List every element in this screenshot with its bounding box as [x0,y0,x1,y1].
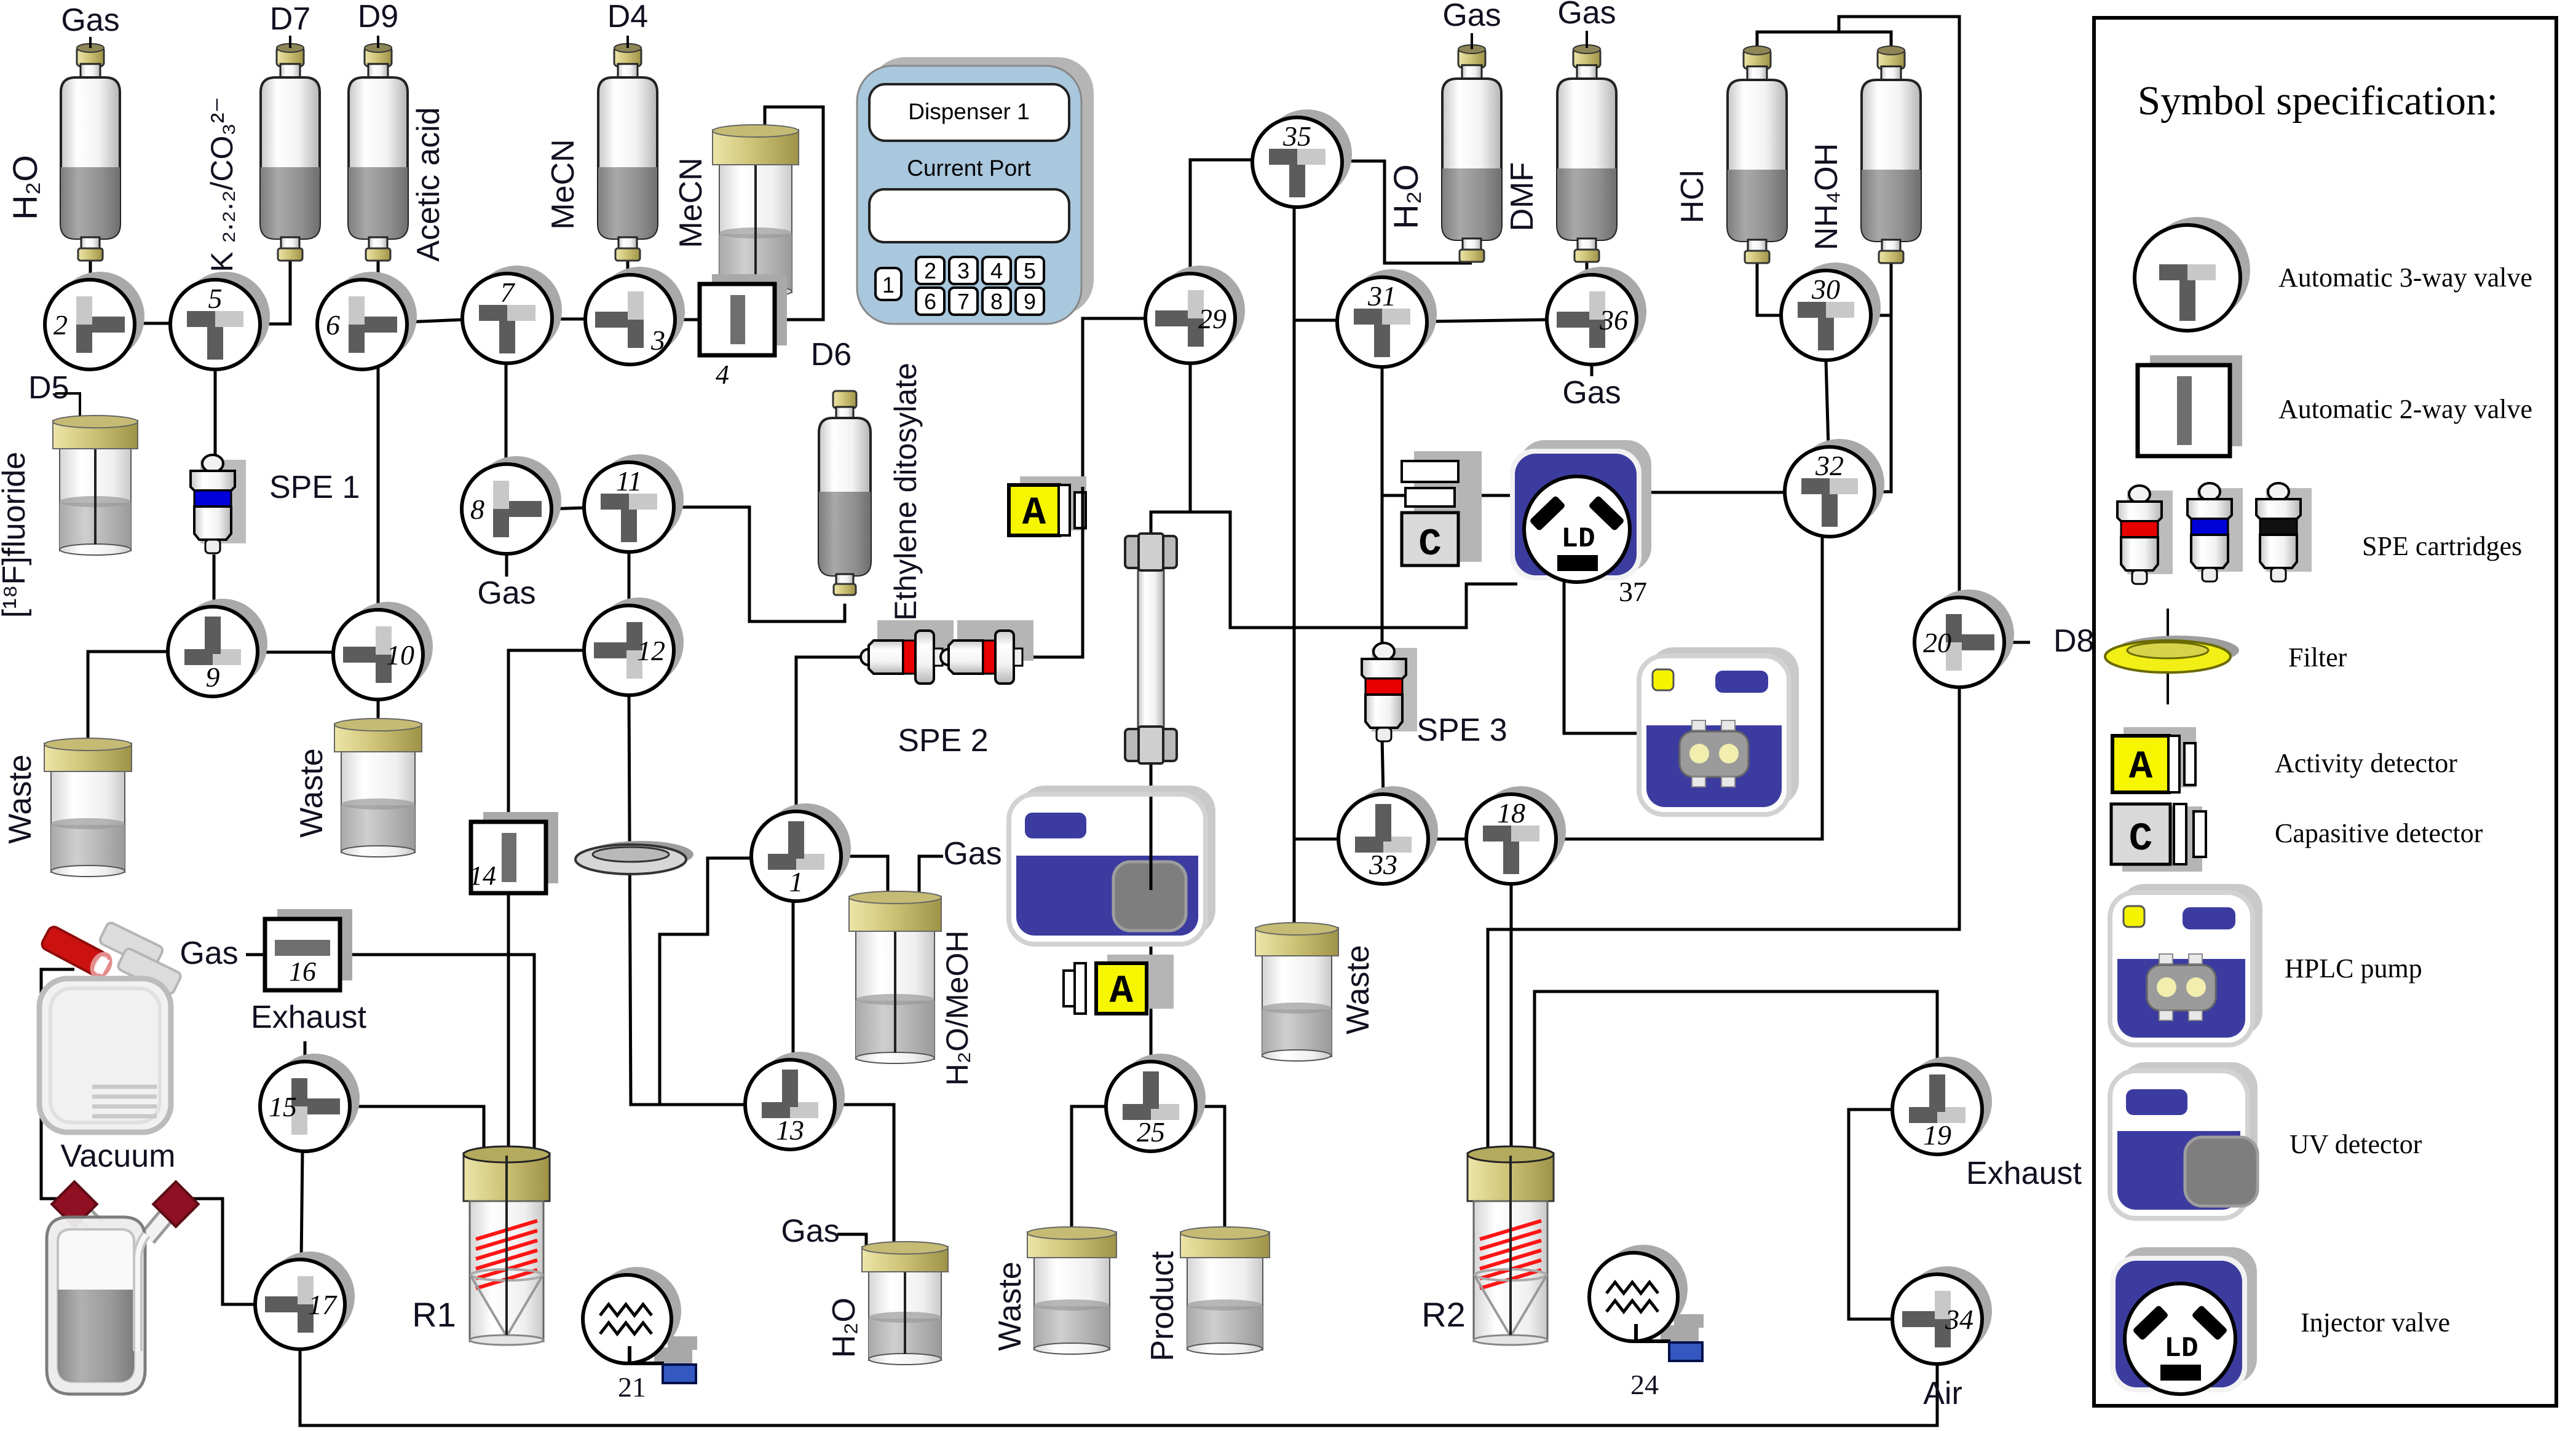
wire valve 2 to valve 5 [133,322,172,325]
valve 8 [462,456,561,554]
valve 19 [1892,1057,1992,1154]
capacitive detector C [1402,451,1482,566]
wire injector to valve 32 [1640,491,1786,494]
wire SPE 1 to valve 9 [213,554,216,609]
svg-text:Capasitive detector: Capasitive detector [2275,818,2483,848]
wire D9 vessel to valve 6 [377,261,380,286]
wire between SPE 2 cartridges [922,656,959,659]
svg-text:12: 12 [637,635,665,666]
svg-text:Vacuum: Vacuum [61,1138,176,1174]
svg-text:2: 2 [53,309,68,341]
valve 34 [1892,1266,1992,1364]
valve 36 [1547,267,1646,365]
wire valve 19 to reactor R2 [1535,991,1937,1156]
vessel D9 acetic acid [349,44,408,261]
legend injector valve icon [2111,1247,2257,1394]
svg-text:Ethylene ditosylate: Ethylene ditosylate [888,363,923,621]
valve 6 [317,272,417,369]
svg-text:SPE 1: SPE 1 [269,470,360,505]
valve 25 [1106,1054,1206,1151]
svg-text:Gas: Gas [1442,0,1501,33]
svg-text:8: 8 [470,494,484,525]
valve 29 [1145,266,1245,363]
legend filter icon [2105,609,2239,704]
svg-text:7: 7 [957,289,970,314]
svg-text:Dispenser 1: Dispenser 1 [908,99,1029,124]
activity detector A1 [1009,476,1086,536]
svg-text:D6: D6 [811,337,851,373]
svg-text:Air: Air [1923,1376,1962,1411]
tick Gas DMF [1586,31,1588,48]
svg-text:Injector valve: Injector valve [2301,1307,2450,1338]
wire NH4OH to valve 30 and valve 32 [1873,263,1891,492]
svg-text:Gas: Gas [61,2,119,38]
wire valve 31 to SPE 3 [1381,366,1384,645]
wire through activity detector A1 [1081,487,1085,538]
wire valve 1 left drop [660,858,753,1103]
reactor R2 [1468,1146,1554,1345]
svg-text:Product: Product [1145,1251,1180,1362]
wire injector to HPLC pump [1564,581,1642,733]
svg-text:19: 19 [1923,1119,1951,1151]
svg-text:R2: R2 [1421,1295,1466,1334]
svg-text:3: 3 [957,258,970,283]
svg-text:29: 29 [1198,303,1227,334]
svg-text:D7: D7 [270,1,310,37]
wire Gas stub to H2O/MeOH vial [919,856,943,894]
wire valve 17 bottom run to valve 34 [300,1348,1937,1425]
wire valve 3 to valve 4 [674,318,701,321]
wire valve 16 to reactor R1 [340,955,534,1156]
svg-text:LD: LD [1561,523,1595,555]
svg-text:A: A [1022,492,1046,536]
vial D5 fluoride [53,416,138,555]
wire valve 31 to valve 36 [1426,320,1549,321]
svg-text:Filter: Filter [2288,642,2347,672]
svg-text:HCl: HCl [1675,170,1710,224]
svg-text:D8: D8 [2053,623,2094,659]
legend activity detector icon [2112,727,2196,792]
svg-text:18: 18 [1497,797,1525,829]
svg-text:SPE 2: SPE 2 [898,723,988,759]
svg-text:6: 6 [924,289,936,314]
jar MeCN D4 reservoir [713,125,799,297]
svg-text:13: 13 [776,1114,804,1146]
valve 14 two-way [469,812,558,893]
valve 9 [168,599,267,696]
svg-text:SPE cartridges: SPE cartridges [2362,531,2522,561]
valve 30 [1781,262,1881,360]
wire SPE 3 to valve 33 [1382,738,1383,796]
svg-text:33: 33 [1369,849,1397,880]
svg-text:MeCN: MeCN [545,139,581,229]
wire valve 18 to valve 32 [1555,535,1822,839]
activity detector A2 [1064,955,1174,1014]
svg-text:Waste: Waste [1340,945,1376,1034]
wire valve 20 D8 stub [2003,641,2030,644]
svg-text:Waste: Waste [992,1261,1028,1350]
svg-text:4: 4 [990,258,1003,283]
legend SPE cartridge black [2256,483,2312,581]
vessel H2O right [1442,45,1501,262]
svg-text:24: 24 [1630,1369,1659,1400]
svg-text:DMF: DMF [1504,162,1540,232]
svg-text:Waste: Waste [2,754,38,843]
svg-text:4: 4 [716,360,729,390]
valve 31 [1337,269,1437,367]
wire valve 7 to valve 3 [551,318,587,321]
svg-text:A: A [2129,746,2153,790]
wire valve 9 to valve 10 [256,651,334,654]
svg-text:15: 15 [269,1091,297,1122]
heater 21 [583,1267,697,1383]
valve 18 [1466,786,1566,884]
svg-text:9: 9 [1024,289,1036,314]
svg-text:5: 5 [1024,258,1036,283]
wire valve 11 to D6 vessel [673,507,845,621]
UV detector main [1009,786,1215,944]
valve 15 [260,1054,360,1151]
dispenser panel [857,57,1094,324]
svg-text:K ₂.₂.₂/CO₃²⁻: K ₂.₂.₂/CO₃²⁻ [205,97,239,272]
valve 32 [1785,439,1884,537]
svg-text:30: 30 [1811,274,1840,305]
wire column UV A line to valve 25 [1150,757,1153,1062]
svg-text:H₂O: H₂O [1386,164,1425,229]
wire valve 6 to valve 10 [377,364,380,612]
HPLC column [1125,534,1177,763]
wire valve 1 to H2O/MeOH vial [840,856,888,894]
valve 35 [1252,109,1352,207]
wire valve 19 to valve 34 [1849,1110,1894,1319]
svg-text:11: 11 [616,465,642,497]
wire Gas stub to H2O vial [837,1234,866,1245]
valve 12 [584,597,684,695]
svg-text:Activity detector: Activity detector [2275,748,2457,778]
legend SPE cartridge blue [2187,483,2243,581]
wire valve 20 to reactor R2 [1488,686,1959,1156]
wire valve 5 to SPE 1 [214,368,217,457]
vial H2O bottom [862,1242,948,1365]
svg-text:25: 25 [1137,1116,1165,1148]
wire valve 11 to valve 12 [628,551,631,607]
legend UV detector icon [2110,1062,2258,1218]
svg-text:A: A [1110,970,1134,1014]
filter inline [575,841,693,874]
wire valve 29 to column tee [1189,362,1192,512]
svg-text:8: 8 [990,289,1003,314]
svg-text:Gas: Gas [180,936,238,971]
tick D9 [377,36,379,48]
wire valve 4 over-loop to MeCN jar [765,107,823,320]
svg-text:Acetic acid: Acetic acid [411,107,446,261]
svg-text:NH₄OH: NH₄OH [1809,143,1844,250]
svg-text:H₂O: H₂O [6,155,44,220]
wire valve 1 to valve 13 [792,900,795,1061]
vessel D7 K2.2.2/CO3 [261,44,320,261]
valve 2 [45,272,144,369]
valve 5 [170,272,270,369]
svg-text:Gas: Gas [477,575,535,611]
svg-text:34: 34 [1945,1304,1973,1335]
legend SPE cartridge red [2117,486,2173,584]
wire valve 14 to reactor R1 [507,892,510,1156]
SPE 3 cartridge [1362,643,1417,741]
wire SPE 2 to activity detector to valve 29 [1014,318,1147,657]
injector valve 37 [1510,440,1651,582]
svg-text:6: 6 [326,309,340,341]
wire valve 13 to H2O vial [834,1105,894,1243]
svg-text:D9: D9 [358,0,398,34]
svg-text:HPLC pump: HPLC pump [2285,953,2422,984]
legend capacitive detector icon [2111,804,2206,872]
dispenser keypad [875,257,1044,315]
heater 24 [1589,1245,1704,1361]
svg-text:20: 20 [1923,627,1951,658]
svg-text:H₂O/MeOH: H₂O/MeOH [940,931,974,1086]
reactor R1 [464,1146,550,1345]
wire valve 33 to valve 18 [1427,838,1469,841]
tick D5 [55,393,80,416]
wire valve 17 to flask [186,1199,256,1304]
wire valve 36 Gas stub [1590,363,1594,376]
vial Product [1180,1227,1270,1354]
wire valve 7 to valve 8 [505,363,508,465]
vial H2O/MeOH [849,891,941,1063]
wire valve 25 to Waste vial [1072,1106,1107,1229]
wire valve 1 to SPE 2 [796,657,867,813]
wire capacitive detector line to injector [1382,494,1514,497]
valve 33 [1338,786,1438,884]
wire valve 35 waste run to Waste vial [1293,206,1296,926]
vessel NH4OH [1862,46,1921,263]
svg-text:UV detector: UV detector [2290,1129,2422,1159]
wire DMF vessel to valve 36 [1586,261,1589,278]
legend panel border [2094,18,2556,1406]
wire HCl top loop to NH4OH [1757,32,1891,53]
svg-text:37: 37 [1619,576,1647,607]
SPE 1 cartridge [191,455,246,553]
vessel D6 ethylene ditosylate [819,391,871,595]
valve 16 two-way [265,909,352,990]
vial Waste 1 [44,738,132,877]
HPLC pump main [1639,647,1799,814]
svg-text:SPE 3: SPE 3 [1416,712,1507,748]
valve 1 [751,803,851,901]
vial Waste bottom [1027,1227,1116,1354]
tick D7 [289,36,291,48]
svg-text:R1: R1 [412,1295,456,1334]
svg-text:D5: D5 [28,370,69,406]
svg-text:Symbol specification:: Symbol specification: [2138,78,2498,124]
svg-text:1: 1 [789,866,804,897]
vacuum pump [39,921,189,1132]
wire valve 15 to reactor R1 [349,1106,484,1156]
svg-text:D4: D4 [607,0,648,34]
flask vessel [47,1181,199,1394]
svg-text:C: C [1418,522,1441,566]
wire valve 35 to H2O vessel [1340,161,1472,263]
tick Gas H2O left [89,37,92,48]
svg-text:21: 21 [618,1371,646,1403]
svg-text:3: 3 [650,325,665,356]
wire HCl to valve 30 [1757,263,1782,315]
legend 3-way valve icon [2135,217,2250,331]
svg-text:32: 32 [1815,450,1844,481]
legend 2-way valve icon [2138,355,2242,456]
wire top tee to valve 20 [1839,17,1959,599]
svg-text:2: 2 [924,258,936,283]
wire valve 33 waste drop [1294,838,1340,841]
svg-text:MeCN: MeCN [673,157,709,248]
valve 20 [1914,589,2014,687]
SPE 2 cartridge b [941,620,1033,684]
wire D7 vessel to valve 5 [259,261,290,324]
wire valve 10 to Waste vial 2 [377,698,380,722]
wire NH4OH elbow to valve 30 right [1870,314,1891,317]
svg-text:Automatic 2-way valve: Automatic 2-way valve [2278,394,2532,424]
vessel DMF [1557,45,1616,262]
svg-text:36: 36 [1599,304,1628,336]
wire waste run to valve 31 [1294,319,1340,322]
svg-text:5: 5 [208,283,223,314]
vessel H2O left [61,44,120,261]
valve 4 two-way [700,274,787,390]
svg-text:Exhaust: Exhaust [1966,1156,2082,1191]
wire Exhaust to valve 15 [304,1041,307,1063]
wire valve 9 to Waste vial 1 [88,652,170,741]
wire valve 8 to Gas stub [505,553,508,577]
svg-text:9: 9 [206,661,220,693]
svg-text:14: 14 [469,861,496,891]
svg-text:1: 1 [882,272,895,298]
tick D4 [626,36,629,48]
svg-text:17: 17 [308,1289,338,1320]
wire valve 30 to valve 32 [1826,360,1828,448]
svg-text:Waste: Waste [294,748,330,837]
wire Gas stub to valve 16 [246,953,266,956]
valve 11 [584,454,684,552]
valve 7 [462,266,562,363]
valve 3 [585,267,685,365]
vessel HCl [1728,46,1787,263]
svg-text:7: 7 [500,277,516,308]
wire column top loop to injector [1151,512,1517,628]
wire H2O vessel to valve 2 [89,261,92,282]
vial Waste 2 [334,719,422,857]
svg-text:Exhaust: Exhaust [251,999,366,1035]
svg-text:LD: LD [2164,1333,2198,1365]
svg-text:Current Port: Current Port [907,156,1031,181]
svg-text:H₂O: H₂O [826,1298,862,1358]
svg-text:10: 10 [386,639,414,671]
wire D4 vessel to valve 3 [626,261,630,278]
svg-text:Gas: Gas [1562,375,1621,411]
svg-text:35: 35 [1282,120,1311,152]
wire valve 18 to reactor R2 [1510,883,1513,1156]
svg-text:31: 31 [1367,280,1396,312]
svg-text:C: C [2129,818,2152,862]
wire valve 25 to Product vial [1195,1106,1225,1229]
legend HPLC pump icon [2110,884,2262,1045]
tick Gas H2O right [1471,33,1473,49]
svg-text:Gas: Gas [781,1213,839,1249]
wire valve 12 through filter to valve 13 [629,694,746,1105]
svg-text:Automatic 3-way valve: Automatic 3-way valve [2278,262,2532,293]
wire valve 12 to valve 14 [508,650,585,823]
SPE 2 cartridge a [861,620,954,684]
svg-text:[¹⁸F]fluoride: [¹⁸F]fluoride [0,452,32,618]
wire through UV detector [1150,797,1153,890]
wire valve 6 to valve 7 [406,320,464,322]
svg-text:Gas: Gas [1557,0,1616,31]
wire vacuum pump to flask [41,969,74,1199]
valve 17 [255,1252,355,1349]
wire valve 29 to valve 35 [1190,160,1255,275]
wire valve 15 to valve 17 [301,1150,302,1261]
vessel D4 MeCN [598,44,657,261]
svg-text:16: 16 [289,956,316,987]
valve 13 [745,1052,845,1149]
valve 10 [333,602,433,700]
svg-text:Gas: Gas [943,836,1002,872]
vial Waste middle [1255,923,1338,1061]
wire valve 8 to valve 11 [550,508,585,509]
